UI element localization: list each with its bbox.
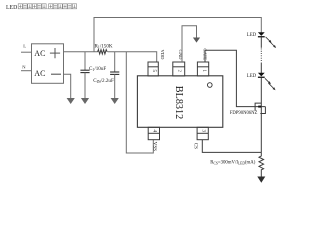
arrow RCS to neutral [257, 177, 265, 183]
terminal N wire [21, 70, 32, 72]
pin 2 box [173, 62, 185, 76]
svg-text:AC: AC [34, 69, 45, 78]
wire D2 to Q1 drain / source column [260, 78, 262, 152]
resistor R1 [98, 50, 108, 54]
svg-text:LED: LED [6, 5, 17, 11]
svg-text:L: L [23, 44, 26, 49]
resistor RCS [259, 152, 264, 176]
svg-text:LED: LED [247, 74, 257, 79]
capacitor CIN [114, 52, 116, 72]
IC U1 BL8312 [137, 76, 222, 128]
arrow C1 to neutral [81, 98, 89, 104]
arrow AC- to neutral [67, 98, 75, 104]
light arrows D1 [266, 37, 277, 48]
wire GND hook [182, 26, 197, 62]
terminal L wire [21, 51, 32, 53]
plus symbol [50, 48, 60, 58]
svg-text:AC: AC [34, 49, 45, 58]
wire D1 to D2 with dashed middle [260, 37, 262, 47]
pin 3 box [197, 127, 208, 139]
wire riser to top rail [94, 18, 261, 52]
svg-text:RCS=300mV/ILED(mA): RCS=300mV/ILED(mA) [210, 161, 255, 166]
svg-text:CS: CS [192, 143, 197, 149]
wire R1 to VDD [108, 52, 157, 62]
minus symbol [51, 73, 61, 75]
svg-text:VSS: VSS [151, 142, 156, 151]
transistor Q1 FDP90N06NZ [255, 103, 265, 113]
wire VSS branch [126, 52, 153, 153]
wire AC+ to main node [64, 51, 98, 53]
title: LED drive linear drive caption (simulated CJK glyphs) [6, 4, 77, 11]
svg-text:C1/10uF: C1/10uF [89, 66, 106, 72]
arrow CIN to neutral [111, 98, 119, 104]
svg-text:BL8312: BL8312 [173, 86, 184, 119]
svg-text:FDP90N06NZ: FDP90N06NZ [230, 111, 258, 116]
pin 4 box [148, 127, 159, 139]
AC source V1 [21, 44, 64, 84]
pin 1 box [197, 62, 208, 76]
LED D1 [258, 32, 265, 36]
wire CS to sense node [202, 140, 261, 153]
svg-text:R1/150K: R1/150K [95, 44, 113, 50]
LED D2 [258, 73, 265, 77]
capacitor C1 [84, 52, 86, 70]
wire AC- return [64, 74, 71, 98]
chip index circle [208, 83, 213, 88]
pin 5 box [148, 62, 158, 76]
light arrows D2 [265, 78, 276, 90]
svg-text:VDD: VDD [160, 50, 165, 61]
svg-text:CIN/2.2uF: CIN/2.2uF [93, 78, 114, 84]
arrow GND to neutral [193, 38, 200, 43]
AC source box [32, 44, 64, 84]
svg-text:LED: LED [247, 33, 257, 38]
wire GATE to Q1 [205, 50, 265, 106]
